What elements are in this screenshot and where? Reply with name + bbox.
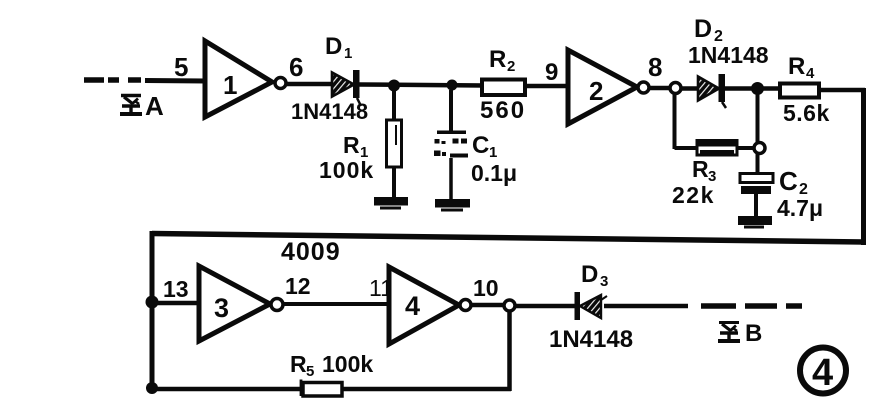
svg-text:3: 3 <box>600 273 608 290</box>
wire D2 to junction <box>725 86 753 91</box>
svg-text:1N4148: 1N4148 <box>291 99 368 124</box>
svg-text:2: 2 <box>507 58 515 75</box>
wire junction down to R3 node <box>756 94 760 143</box>
svg-text:8: 8 <box>648 52 662 82</box>
inverter U3 (gate 3) <box>199 266 283 341</box>
inverter U2 (gate 2) <box>568 50 649 124</box>
capacitor C2 4.7u electrolytic <box>740 166 823 221</box>
svg-text:100k: 100k <box>322 351 373 377</box>
node B label 至B <box>718 320 762 347</box>
svg-text:1: 1 <box>489 144 497 161</box>
svg-text:1N4148: 1N4148 <box>549 326 633 353</box>
svg-text:9: 9 <box>545 59 558 86</box>
wire node to D3 <box>515 304 577 309</box>
svg-text:12: 12 <box>285 273 311 299</box>
wire gate4 output down vertical <box>507 311 512 391</box>
svg-text:13: 13 <box>163 276 189 302</box>
ground below R1 <box>374 197 408 210</box>
capacitor C1 0.1u <box>434 90 517 200</box>
svg-text:5: 5 <box>174 52 188 82</box>
svg-text:D: D <box>325 33 342 60</box>
wire R4 to right edge <box>819 88 865 93</box>
node 5 input wire <box>145 52 206 82</box>
node 10 wire from gate4 output <box>472 275 504 305</box>
wire node to D2 <box>681 86 699 91</box>
svg-text:4: 4 <box>812 352 833 394</box>
diode D3 1N4148 (pointing left) <box>549 261 633 353</box>
wire node down to C2 <box>756 153 760 175</box>
svg-text:5.6k: 5.6k <box>783 100 830 126</box>
svg-text:3: 3 <box>214 293 229 323</box>
svg-text:2: 2 <box>589 76 603 106</box>
figure number circled 4 <box>800 348 846 395</box>
wire R2 to gate2 input node 9 <box>525 59 569 86</box>
junction dot bottom left <box>146 382 158 394</box>
junction dot right of D2 <box>751 82 764 95</box>
node 6 wire from gate1 output <box>287 52 332 84</box>
svg-text:10: 10 <box>473 275 499 301</box>
wire D3 to dashed output <box>604 304 688 309</box>
svg-text:100k: 100k <box>319 157 374 183</box>
svg-text:1: 1 <box>223 70 237 100</box>
wire parallel branch left side <box>675 93 699 149</box>
svg-text:4009: 4009 <box>281 238 341 266</box>
wire R3 to node circle <box>737 146 754 150</box>
svg-text:R: R <box>290 351 307 377</box>
node circle at gate2 output branch <box>670 83 681 94</box>
svg-text:4: 4 <box>405 291 420 321</box>
junction dot at R1 tap <box>388 80 400 92</box>
junction dot node 13 <box>146 296 159 309</box>
svg-text:4.7μ: 4.7μ <box>777 195 823 221</box>
svg-text:22k: 22k <box>672 182 715 208</box>
resistor R3 22k <box>672 141 737 209</box>
svg-text:C: C <box>779 166 798 196</box>
svg-text:A: A <box>145 91 164 121</box>
node 13 wire <box>152 276 200 303</box>
node circle at gate4 output branch <box>504 300 515 311</box>
svg-text:560: 560 <box>480 97 526 124</box>
svg-text:5: 5 <box>306 363 314 380</box>
junction dot at C1 tap <box>447 80 458 91</box>
wire dashed input at left <box>84 77 141 83</box>
node A label 至A <box>120 91 164 121</box>
wire right vertical down <box>861 88 866 245</box>
wire D1 to R2 <box>359 85 484 86</box>
resistor R5 100k <box>290 351 373 396</box>
node 12 wire between gate3 and gate4 <box>284 273 393 304</box>
wire dashed output at right <box>701 303 802 309</box>
svg-text:C: C <box>472 132 489 159</box>
svg-text:1N4148: 1N4148 <box>688 42 769 68</box>
resistor R2 560 <box>480 46 526 124</box>
svg-text:0.1μ: 0.1μ <box>471 160 517 186</box>
inverter U4 (gate 4) <box>389 267 471 344</box>
wire junction to R4 <box>758 86 781 91</box>
svg-text:6: 6 <box>289 52 303 82</box>
svg-text:R: R <box>692 156 709 182</box>
diode D1 1N4148 <box>291 33 368 124</box>
wire bottom feedback horizontal <box>150 387 511 392</box>
svg-text:D: D <box>694 15 712 43</box>
node 8 wire from gate2 output <box>648 52 670 88</box>
resistor R4 5.6k <box>780 53 830 126</box>
inverter U1 (gate 1) <box>205 41 286 117</box>
ground below C1 <box>435 199 470 212</box>
svg-text:R: R <box>788 53 805 80</box>
svg-text:R: R <box>343 132 360 158</box>
svg-text:1: 1 <box>344 45 352 62</box>
svg-text:D: D <box>581 261 598 288</box>
svg-text:B: B <box>745 320 762 347</box>
resistor R1 100k vertical <box>319 90 402 199</box>
diode D2 1N4148 <box>688 15 769 108</box>
wire loop top horizontal <box>152 234 864 243</box>
svg-text:4: 4 <box>806 65 815 82</box>
ground below C2 <box>738 216 772 229</box>
node circle at R3 right <box>754 143 765 154</box>
wire loop left vertical <box>150 231 155 390</box>
svg-text:R: R <box>489 46 506 73</box>
